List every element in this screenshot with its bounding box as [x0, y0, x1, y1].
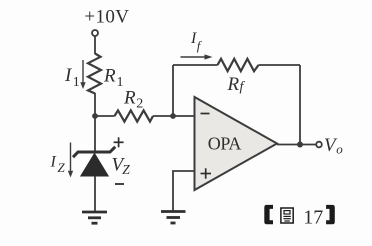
zener + polarity — [114, 137, 124, 147]
wire: op-amp output — [277, 144, 316, 146]
label If — [190, 30, 203, 53]
svg-text:1: 1 — [117, 75, 124, 90]
+10V terminal — [92, 30, 98, 36]
svg-text:+10V: +10V — [84, 7, 129, 28]
svg-text:R: R — [227, 74, 240, 95]
svg-text:17: 17 — [303, 206, 323, 228]
label R2 — [123, 87, 143, 111]
label OPA — [208, 133, 242, 153]
svg-text:o: o — [336, 142, 343, 157]
svg-text:1: 1 — [73, 75, 80, 90]
wire: R1 to node A — [94, 93, 96, 116]
svg-text:OPA: OPA — [208, 133, 242, 153]
label VZ — [112, 155, 131, 178]
op-amp U1 — [195, 97, 278, 190]
op-amp noninverting pin + — [201, 168, 212, 178]
label R1 — [103, 66, 124, 91]
resistor R2 — [115, 110, 154, 121]
label I1 — [64, 65, 80, 90]
wire: feedback rail left segment — [173, 64, 218, 66]
zener - polarity — [115, 183, 124, 185]
label +10V — [84, 7, 129, 28]
wire: zener to left ground — [94, 176, 96, 212]
svg-text:Z: Z — [58, 160, 66, 175]
wire: R2 to inverting input — [153, 115, 195, 117]
label IZ — [50, 154, 66, 176]
resistor Rf — [218, 59, 259, 71]
output terminal — [316, 142, 322, 148]
current arrow I1 — [80, 60, 85, 89]
zener diode VZ — [73, 147, 115, 176]
wire: terminal to R1 — [94, 36, 96, 54]
svg-text:R: R — [103, 66, 116, 87]
wire: node A to R2 — [95, 115, 115, 117]
svg-text:Z: Z — [122, 162, 130, 177]
svg-text:R: R — [123, 87, 136, 108]
svg-text:2: 2 — [136, 96, 143, 111]
wire: node A to zener — [94, 116, 96, 152]
current arrow IZ — [68, 143, 73, 178]
ground (right) — [161, 212, 186, 224]
caption 圖 17 — [264, 205, 335, 229]
node B junction dot (feedback tap) — [170, 113, 176, 119]
label Vo — [324, 135, 343, 157]
wire: feedback rail right segment — [259, 64, 301, 66]
current arrow If — [181, 54, 213, 59]
label Rf — [227, 74, 246, 95]
wire: feedback drop to output node — [299, 65, 301, 145]
wire: node B up to feedback rail — [172, 65, 174, 116]
svg-text:I: I — [50, 154, 57, 171]
node A junction dot — [92, 113, 98, 119]
resistor R1 — [88, 54, 101, 94]
output node dot — [297, 142, 303, 148]
op-amp inverting pin - — [201, 113, 210, 115]
wire: noninverting input branch — [173, 171, 195, 212]
ground (left) — [82, 212, 107, 223]
